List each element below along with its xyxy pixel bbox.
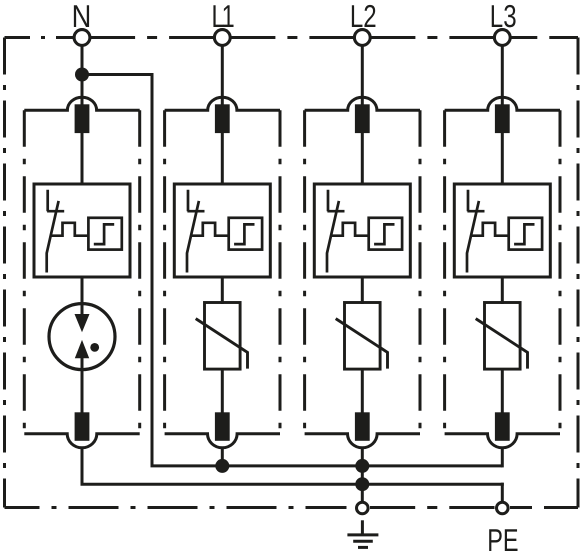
junction dot L2 / bus 1 bbox=[355, 459, 369, 473]
wire N junction to right riser bbox=[82, 73, 154, 76]
plug-in contact (bottom) N bbox=[75, 412, 90, 441]
wire varistor to bottom contact L1 bbox=[221, 368, 224, 414]
wire disconnector to arrester element L3 bbox=[501, 277, 504, 304]
wire top contact to thermal disconnector L1 bbox=[221, 132, 224, 185]
wire varistor to bottom contact L3 bbox=[501, 368, 504, 414]
node: earth connection circle on enclosure boundary bbox=[357, 502, 369, 514]
terminal L3 bbox=[494, 30, 510, 46]
junction dot L1 / bus 1 bbox=[215, 459, 229, 473]
plug-in contact (top) L3 bbox=[495, 104, 510, 133]
varistor (MOV) L3 bbox=[476, 303, 528, 370]
wire top contact to thermal disconnector L3 bbox=[501, 132, 504, 185]
wire N bottom contact down to bus 2 bbox=[82, 447, 504, 484]
thermal disconnecting device L1 (switch with thermal trip) bbox=[174, 184, 270, 277]
thermal disconnecting device L3 (switch with thermal trip) bbox=[454, 184, 550, 277]
plug-in contact (top) L2 bbox=[355, 104, 370, 133]
N-PE spark gap (triggered, N module) bbox=[49, 304, 115, 414]
wire L3 terminal to module top contact bbox=[501, 45, 504, 106]
terminal PE (circle on enclosure boundary) bbox=[497, 502, 509, 514]
wire L1 bottom contact to bus 1 bbox=[221, 447, 224, 466]
wire L2 bottom contact through buses to earth bbox=[361, 447, 364, 503]
module boundary L3 (dash-dot protection-module outline) bbox=[445, 97, 560, 110]
thermal disconnecting device L2 (switch with thermal trip) bbox=[314, 184, 410, 277]
plug-in contact (top) N bbox=[75, 104, 90, 133]
module boundary N (dash-dot protection-module outline) bbox=[24, 97, 139, 110]
varistor (MOV) L2 bbox=[336, 303, 388, 370]
svg-text:PE: PE bbox=[487, 522, 518, 558]
wire L2 terminal to module top contact bbox=[361, 45, 364, 106]
bus wire: lower collecting bus 1 (N riser to L3) bbox=[151, 464, 503, 467]
plug-in contact (top) L1 bbox=[215, 104, 230, 133]
wire varistor to bottom contact L2 bbox=[361, 368, 364, 414]
wire N terminal to module top contact bbox=[81, 45, 84, 106]
bus wire: lower collecting bus 2 (N module to PE) labelled by polyline above; riser to PE terminal bbox=[501, 483, 504, 503]
wire L3 bottom contact to bus 1 bbox=[501, 447, 504, 467]
ground (earth symbol) bbox=[347, 520, 378, 547]
terminal L2 bbox=[354, 30, 370, 46]
terminal L1 bbox=[214, 30, 230, 46]
thermal disconnecting device N (switch with thermal trip) bbox=[34, 184, 130, 277]
wire top contact to thermal disconnector L2 bbox=[361, 132, 364, 185]
wire disconnector to arrester element N bbox=[81, 277, 84, 304]
wire top contact to thermal disconnector N bbox=[81, 132, 84, 185]
junction dot L2 / bus 2 bbox=[355, 477, 369, 491]
wire disconnector to arrester element L2 bbox=[361, 277, 364, 304]
varistor (MOV) L1 bbox=[196, 303, 248, 370]
plug-in contact (bottom) L2 bbox=[355, 412, 370, 441]
wire disconnector to arrester element L1 bbox=[221, 277, 224, 304]
module boundary L2 (dash-dot protection-module outline) bbox=[305, 97, 420, 110]
module boundary L1 (dash-dot protection-module outline) bbox=[165, 97, 280, 110]
terminal N bbox=[74, 30, 90, 46]
wire riser down (N bus) bbox=[151, 75, 154, 466]
junction dot on N conductor bbox=[75, 68, 89, 82]
wire L1 terminal to module top contact bbox=[221, 45, 224, 106]
plug-in contact (bottom) L3 bbox=[495, 412, 510, 441]
plug-in contact (bottom) L1 bbox=[215, 412, 230, 441]
